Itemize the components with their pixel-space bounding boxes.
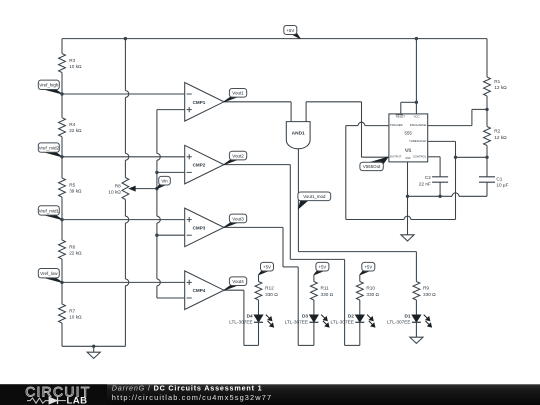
svg-text:39 kΩ: 39 kΩ — [69, 189, 82, 194]
svg-text:Vref_mid2: Vref_mid2 — [39, 146, 60, 151]
svg-text:CMP4: CMP4 — [193, 288, 206, 293]
svg-text:Vout4: Vout4 — [232, 279, 244, 284]
svg-text:VCC: VCC — [414, 114, 420, 118]
svg-text:R8: R8 — [115, 183, 121, 188]
svg-text:330 Ω: 330 Ω — [265, 292, 278, 297]
svg-text:THRESHOLD: THRESHOLD — [409, 139, 426, 143]
svg-text:Vref_mid1: Vref_mid1 — [39, 208, 60, 213]
svg-text:330 Ω: 330 Ω — [321, 292, 334, 297]
svg-text:22 kΩ: 22 kΩ — [69, 128, 82, 133]
svg-text:+5V: +5V — [286, 28, 294, 33]
svg-text:CONTROL: CONTROL — [413, 154, 427, 158]
svg-text:GND: GND — [405, 158, 410, 160]
svg-text:CMP3: CMP3 — [193, 225, 206, 230]
svg-text:10 kΩ: 10 kΩ — [108, 189, 121, 194]
svg-text:555: 555 — [405, 130, 413, 135]
svg-text:R9: R9 — [423, 286, 429, 291]
svg-text:R6: R6 — [69, 245, 75, 250]
svg-text:C2: C2 — [425, 175, 431, 180]
svg-text:DISCHARGE: DISCHARGE — [410, 123, 427, 127]
svg-text:12 kΩ: 12 kΩ — [494, 135, 507, 140]
svg-text:R3: R3 — [69, 58, 75, 63]
svg-text:R2: R2 — [494, 129, 500, 134]
svg-text:C1: C1 — [496, 176, 502, 181]
svg-text:R7: R7 — [69, 309, 75, 314]
svg-text:R10: R10 — [366, 286, 375, 291]
svg-text:Vref_low: Vref_low — [40, 271, 58, 276]
svg-text:DarrenG / DC Circuits Assessme: DarrenG / DC Circuits Assessment 1 — [112, 383, 263, 392]
svg-text:V555Out: V555Out — [363, 164, 381, 169]
svg-text:+5V: +5V — [263, 265, 271, 270]
svg-text:10 µF: 10 µF — [496, 183, 508, 188]
svg-text:Vref_high: Vref_high — [39, 83, 59, 88]
svg-text:+5V: +5V — [318, 265, 326, 270]
svg-text:R4: R4 — [69, 122, 75, 127]
svg-text:OUTPUT: OUTPUT — [390, 155, 402, 159]
svg-text:Vout1: Vout1 — [232, 91, 244, 96]
svg-text:Vout1_mod: Vout1_mod — [303, 194, 326, 199]
svg-text:LAB: LAB — [67, 395, 88, 405]
svg-text:R11: R11 — [321, 286, 330, 291]
svg-text:D2: D2 — [348, 313, 354, 318]
svg-text:330 Ω: 330 Ω — [366, 292, 379, 297]
svg-text:D4: D4 — [247, 313, 253, 318]
svg-text:R12: R12 — [265, 286, 274, 291]
svg-text:LTL-307EE: LTL-307EE — [331, 320, 354, 325]
svg-text:LTL-307EE: LTL-307EE — [285, 320, 308, 325]
svg-text:CMP2: CMP2 — [193, 163, 206, 168]
svg-text:D1: D1 — [405, 313, 411, 318]
svg-text:22 kΩ: 22 kΩ — [69, 251, 82, 256]
svg-text:AND1: AND1 — [292, 131, 305, 137]
svg-text:22 nF: 22 nF — [419, 181, 431, 186]
svg-text:12 kΩ: 12 kΩ — [494, 85, 507, 90]
svg-text:TRIGGER: TRIGGER — [390, 123, 403, 127]
svg-text:LTL-307EE: LTL-307EE — [229, 320, 252, 325]
svg-text:330 Ω: 330 Ω — [423, 292, 436, 297]
svg-text:R5: R5 — [69, 183, 75, 188]
svg-text:U1: U1 — [405, 147, 412, 153]
svg-text:D3: D3 — [302, 313, 308, 318]
svg-text:CMP1: CMP1 — [193, 100, 206, 105]
svg-text:10 kΩ: 10 kΩ — [69, 315, 82, 320]
svg-text:+5V: +5V — [364, 265, 372, 270]
svg-text:10 kΩ: 10 kΩ — [69, 64, 82, 69]
svg-text:Vout3: Vout3 — [232, 216, 244, 221]
svg-text:R1: R1 — [494, 79, 500, 84]
svg-text:Vout2: Vout2 — [232, 154, 244, 159]
svg-text:http://circuitlab.com/cu4mx5sg: http://circuitlab.com/cu4mx5sg32w77 — [112, 393, 272, 402]
svg-text:LTL-307EE: LTL-307EE — [387, 320, 410, 325]
svg-text:Vin: Vin — [161, 179, 168, 184]
